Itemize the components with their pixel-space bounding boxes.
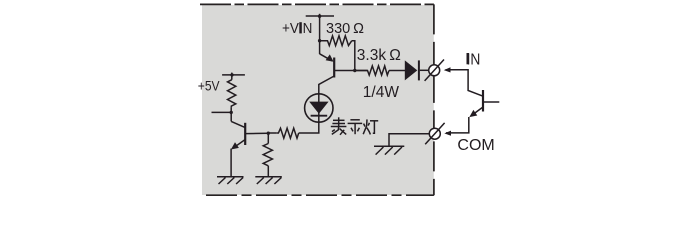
svg-text:+5V: +5V xyxy=(198,77,220,93)
transistor Q2 emitter diagonal xyxy=(234,140,246,148)
kanji 表 xyxy=(338,117,340,126)
transistor Q1 emitter arrow xyxy=(326,54,334,61)
diode D1 cathode bar xyxy=(418,60,420,80)
resistor +5V pull-up (vertical) xyxy=(228,80,236,108)
diode D1 xyxy=(405,60,418,80)
ground (COM) xyxy=(374,146,404,154)
transistor Q3 emitter arrow xyxy=(469,110,477,117)
resistor 330ohm xyxy=(320,36,352,46)
svg-text:+VIN: +VIN xyxy=(282,20,312,37)
svg-text:1/4W: 1/4W xyxy=(363,84,400,101)
wire LED return to base node xyxy=(268,132,277,134)
wire base to 3.3k xyxy=(335,70,368,72)
transistor Q2 emitter arrow xyxy=(231,142,239,149)
wire COM to ground xyxy=(389,134,429,147)
wire +5V to resistor xyxy=(231,73,233,80)
ground (pull-down) xyxy=(255,177,281,184)
wire base of left transistor xyxy=(245,132,268,134)
wire resistor to collector corner xyxy=(230,107,232,121)
transistor Q1 emitter diagonal xyxy=(320,54,332,61)
wire pulldown resistor top xyxy=(267,133,269,144)
svg-text:3.3k Ω: 3.3k Ω xyxy=(357,47,401,64)
terminal COM (circle with slash) xyxy=(429,128,440,139)
wire diode to IN terminal xyxy=(420,69,429,71)
arrow into COM terminal xyxy=(444,131,451,136)
LED cathode bar xyxy=(311,115,328,117)
wire 330 right-end drop xyxy=(352,41,355,71)
svg-text:330 Ω: 330 Ω xyxy=(326,21,364,37)
terminal IN (circle with slash) xyxy=(429,65,440,76)
LED triangle xyxy=(309,102,328,114)
resistor 3.3k xyxy=(355,66,389,75)
node junction dots xyxy=(318,15,321,18)
transistor Q3 emitter diagonal xyxy=(472,107,484,116)
transistor Q1 PNP (bar) xyxy=(333,58,335,78)
module body (gray box) xyxy=(202,5,434,195)
base stub of external transistor xyxy=(484,101,500,103)
wire left emitter to ground xyxy=(230,149,232,177)
ground (left emitter) xyxy=(217,177,244,184)
label 表示灯 (drawn strokes) xyxy=(331,117,378,135)
+VIN power rail xyxy=(306,15,334,17)
kanji 灯 xyxy=(363,119,367,134)
wire +VIN down xyxy=(319,14,321,54)
wire stub to internal circuit xyxy=(212,111,232,113)
wire pulldown resistor bottom xyxy=(267,166,269,177)
resistor LED return (horizontal) xyxy=(277,128,299,138)
transistor Q3 NPN external (bar) xyxy=(482,90,484,112)
resistor base pull-down (vertical) xyxy=(263,144,272,166)
transistor Q2 NPN left (bar) xyxy=(244,123,246,145)
svg-text:COM: COM xyxy=(457,137,494,154)
arrow into IN terminal xyxy=(444,67,451,72)
+5V power rail xyxy=(222,74,245,76)
indicator LED circle 表示灯 xyxy=(305,94,333,122)
kanji 示 xyxy=(350,119,359,121)
wire 3.3k to diode xyxy=(389,70,405,72)
dashed enclosure border xyxy=(200,3,434,5)
wire left collector diagonal xyxy=(231,121,245,127)
wire collector down to LED and LED return corner xyxy=(299,76,335,133)
wire COM external xyxy=(446,117,469,133)
wire IN external xyxy=(446,70,484,97)
